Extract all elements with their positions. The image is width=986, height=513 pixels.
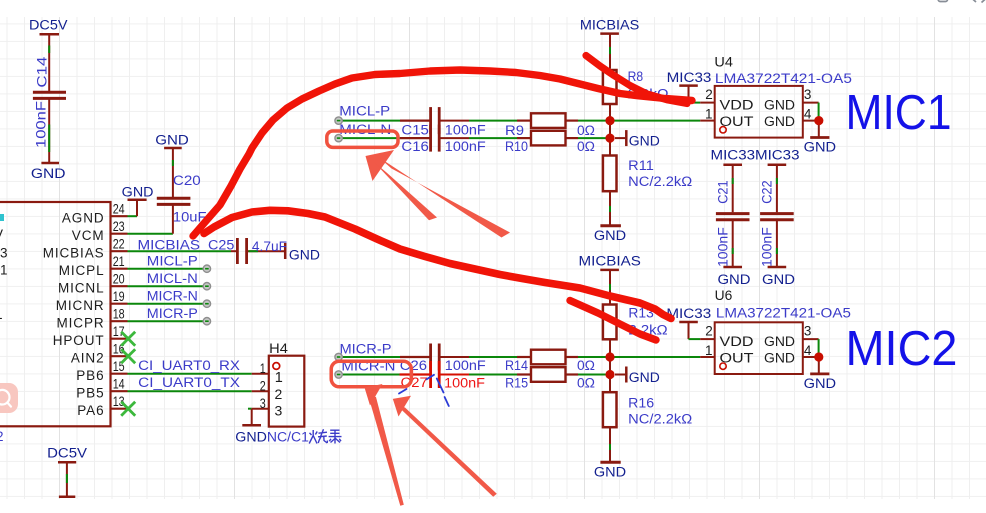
svg-text:0Ω: 0Ω xyxy=(577,123,595,138)
svg-text:100nF: 100nF xyxy=(760,227,775,267)
svg-text:R16: R16 xyxy=(628,396,654,411)
svg-text:C22: C22 xyxy=(760,180,775,203)
svg-text:19: 19 xyxy=(113,289,125,304)
svg-text:GND: GND xyxy=(629,134,660,149)
svg-text:14: 14 xyxy=(113,377,125,392)
svg-text:GND: GND xyxy=(764,114,795,129)
svg-text:V: V xyxy=(0,227,3,242)
svg-text:MICL-N: MICL-N xyxy=(147,271,198,286)
svg-text:2: 2 xyxy=(0,429,4,444)
svg-text:4.7uF: 4.7uF xyxy=(252,239,287,254)
svg-text:3: 3 xyxy=(804,87,812,102)
svg-text:PB6: PB6 xyxy=(76,368,104,383)
svg-text:2: 2 xyxy=(705,87,713,102)
svg-text:MICBIAS: MICBIAS xyxy=(138,237,201,252)
svg-text:GND: GND xyxy=(629,370,660,385)
svg-text:MICBIAS: MICBIAS xyxy=(579,253,641,268)
svg-text:U6: U6 xyxy=(715,288,733,303)
svg-text:100nF: 100nF xyxy=(33,101,48,148)
svg-text:1: 1 xyxy=(705,106,713,121)
svg-text:MICBIAS: MICBIAS xyxy=(43,245,105,260)
svg-text:100nF: 100nF xyxy=(445,123,486,138)
svg-text:LMA3722T421-OA5: LMA3722T421-OA5 xyxy=(715,71,852,86)
svg-text:R14: R14 xyxy=(505,358,528,373)
svg-text:24: 24 xyxy=(113,202,125,217)
svg-text:0Ω: 0Ω xyxy=(577,139,595,154)
svg-text:100nF: 100nF xyxy=(444,375,485,390)
svg-text:20: 20 xyxy=(113,272,125,287)
svg-text:MICL-P: MICL-P xyxy=(339,103,390,118)
svg-text:GND: GND xyxy=(764,97,795,112)
svg-text:GND: GND xyxy=(762,272,795,287)
svg-text:100nF: 100nF xyxy=(445,358,486,373)
svg-text:GND: GND xyxy=(804,376,837,391)
svg-text:1: 1 xyxy=(275,370,283,386)
svg-text:4: 4 xyxy=(804,106,812,121)
svg-text:1: 1 xyxy=(0,263,8,278)
svg-text:18: 18 xyxy=(113,307,125,322)
svg-text:MICBIAS: MICBIAS xyxy=(580,17,639,32)
svg-text:2: 2 xyxy=(275,386,283,402)
svg-text:R9: R9 xyxy=(505,123,524,138)
svg-text:MICR-P: MICR-P xyxy=(147,306,198,321)
svg-text:GND: GND xyxy=(594,228,626,243)
svg-text:0Ω: 0Ω xyxy=(577,358,595,373)
svg-text:MICPL: MICPL xyxy=(59,263,105,278)
svg-text:3: 3 xyxy=(260,396,266,411)
svg-text:MICPR: MICPR xyxy=(57,315,105,330)
svg-text:-: - xyxy=(0,310,3,325)
svg-text:VDD: VDD xyxy=(720,334,754,349)
svg-text:CI_UART0_TX: CI_UART0_TX xyxy=(138,375,240,390)
svg-text:GND: GND xyxy=(235,429,267,444)
svg-text:GND: GND xyxy=(31,166,66,181)
svg-text:4: 4 xyxy=(804,343,812,358)
svg-text:MIC1: MIC1 xyxy=(846,86,952,140)
svg-text:MICL-P: MICL-P xyxy=(147,253,198,268)
svg-text:H4: H4 xyxy=(269,341,288,356)
svg-text:100nF: 100nF xyxy=(716,227,731,267)
svg-text:MIC2: MIC2 xyxy=(846,322,958,376)
svg-text:GND: GND xyxy=(594,465,626,480)
svg-text:R10: R10 xyxy=(505,139,528,154)
svg-text:23: 23 xyxy=(113,219,125,234)
svg-text:DC5V: DC5V xyxy=(47,445,87,460)
svg-text:3: 3 xyxy=(804,324,812,339)
svg-text:VCM: VCM xyxy=(72,228,105,243)
svg-text:1: 1 xyxy=(260,361,266,376)
svg-text:GND: GND xyxy=(764,334,795,349)
svg-text:GND: GND xyxy=(289,247,320,262)
svg-text:C21: C21 xyxy=(716,180,731,203)
svg-text:GND: GND xyxy=(718,272,751,287)
svg-text:MICNR: MICNR xyxy=(56,298,105,313)
svg-text:DC5V: DC5V xyxy=(29,17,68,32)
svg-text:2: 2 xyxy=(260,379,266,394)
svg-text:2: 2 xyxy=(705,324,713,339)
svg-text:R15: R15 xyxy=(505,375,528,390)
svg-text:GND: GND xyxy=(764,351,795,366)
svg-text:NC/2.2kΩ: NC/2.2kΩ xyxy=(628,174,692,189)
svg-text:22: 22 xyxy=(113,237,125,252)
svg-text:GND: GND xyxy=(122,185,154,200)
svg-text:0Ω: 0Ω xyxy=(577,376,595,391)
svg-text:AIN2: AIN2 xyxy=(71,350,105,365)
svg-text:C14: C14 xyxy=(35,56,50,88)
svg-text:MICR-P: MICR-P xyxy=(340,341,392,356)
svg-text:3: 3 xyxy=(275,403,283,419)
svg-text:HPOUT: HPOUT xyxy=(53,333,105,348)
svg-text:NC/2.2kΩ: NC/2.2kΩ xyxy=(628,412,692,427)
svg-text:C20: C20 xyxy=(173,173,201,188)
svg-text:C25: C25 xyxy=(208,237,234,252)
svg-text:21: 21 xyxy=(113,254,125,269)
svg-text:PA6: PA6 xyxy=(77,403,104,418)
svg-text:U4: U4 xyxy=(714,54,733,69)
svg-text:PB5: PB5 xyxy=(76,385,104,400)
svg-text:GND: GND xyxy=(155,133,189,148)
svg-text:AGND: AGND xyxy=(62,210,105,225)
svg-text:NC/C1: NC/C1 xyxy=(267,429,309,444)
svg-text:1: 1 xyxy=(705,343,713,358)
svg-text:3: 3 xyxy=(0,246,8,261)
svg-text:MICNL: MICNL xyxy=(58,280,105,295)
svg-text:GND: GND xyxy=(804,140,837,155)
svg-text:CI_UART0_RX: CI_UART0_RX xyxy=(138,358,240,373)
svg-text:LMA3722T421-OA5: LMA3722T421-OA5 xyxy=(716,305,851,320)
svg-text:100nF: 100nF xyxy=(445,139,486,154)
svg-text:VDD: VDD xyxy=(720,97,754,112)
svg-text:MICR-N: MICR-N xyxy=(147,288,198,303)
svg-text:MIC33MIC33: MIC33MIC33 xyxy=(711,148,800,163)
svg-text:C16: C16 xyxy=(401,139,429,154)
svg-text:C15: C15 xyxy=(401,122,429,137)
svg-text:R11: R11 xyxy=(628,158,654,173)
svg-text:MIC33: MIC33 xyxy=(667,70,712,85)
